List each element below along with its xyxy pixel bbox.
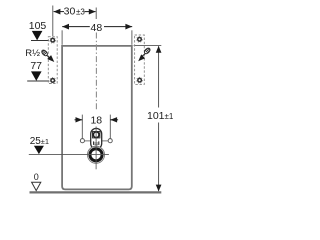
svg-text:±1: ±1	[41, 137, 49, 146]
svg-text:101: 101	[147, 110, 165, 122]
svg-text:48: 48	[91, 22, 103, 34]
svg-text:±1: ±1	[165, 112, 174, 121]
svg-text:25: 25	[30, 136, 42, 147]
svg-text:77: 77	[30, 60, 42, 72]
svg-text:105: 105	[29, 20, 47, 32]
svg-text:30: 30	[64, 5, 76, 17]
svg-text:±3: ±3	[76, 7, 85, 16]
svg-text:18: 18	[90, 115, 102, 127]
svg-text:0: 0	[34, 172, 39, 182]
svg-text:R½: R½	[25, 48, 40, 59]
